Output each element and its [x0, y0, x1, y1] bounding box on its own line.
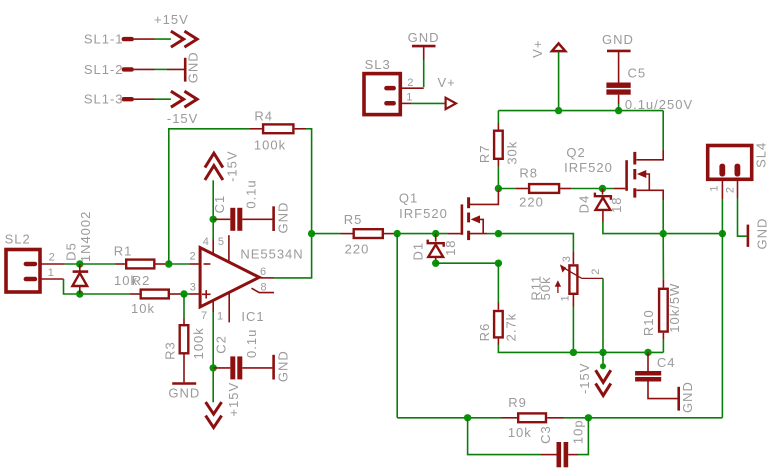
- potentiometer R11 wiper arrow: [560, 264, 603, 278]
- svg-text:10k/5W: 10k/5W: [667, 283, 682, 333]
- svg-text:R5: R5: [344, 212, 363, 227]
- zener diode D1: [428, 234, 444, 264]
- capacitor C1 lead right to ground: [242, 218, 272, 220]
- node op-amp output junction: [308, 230, 315, 237]
- wire SL2 pin1 lead: [40, 278, 64, 280]
- svg-text:3: 3: [561, 256, 573, 262]
- resistor R2 body: [141, 290, 169, 299]
- wire SL4 pin1 to output node: [721, 199, 723, 234]
- svg-text:100k: 100k: [254, 138, 286, 153]
- capacitor C2 lead left: [213, 367, 230, 369]
- wire C3 branch left: [468, 418, 541, 455]
- svg-text:10k: 10k: [508, 425, 532, 440]
- capacitor C4 lead bottom to ground: [648, 382, 678, 399]
- svg-text:IRF520: IRF520: [399, 206, 448, 221]
- svg-text:5: 5: [218, 236, 224, 248]
- svg-text:NE5534N: NE5534N: [240, 247, 303, 262]
- svg-text:R6: R6: [477, 323, 492, 342]
- op-amp pin 2 stub: [189, 263, 198, 265]
- node source column junction: [495, 260, 502, 267]
- svg-text:V+: V+: [530, 40, 545, 58]
- svg-text:SL1-3: SL1-3: [84, 92, 124, 107]
- resistor R9 lead right: [547, 417, 563, 419]
- svg-text:GND: GND: [276, 350, 291, 382]
- resistor R6 lead top: [497, 303, 499, 310]
- node D5 cathode junction: [76, 260, 83, 267]
- resistor R8 lead left: [516, 188, 528, 190]
- resistor R8 lead right: [560, 188, 571, 190]
- ground symbol GND bar (R3): [172, 382, 196, 385]
- wire net SL1-1 to +15V: [155, 38, 171, 40]
- capacitor C1 plates: [230, 208, 242, 231]
- svg-text:2.7k: 2.7k: [504, 313, 519, 342]
- svg-text:-15V: -15V: [225, 150, 240, 181]
- supply symbol -15V down (double chevron): [596, 370, 611, 395]
- wire C3 branch right: [578, 418, 588, 455]
- capacitor C4 lead top: [647, 352, 649, 371]
- node feedback takeoff junction: [394, 230, 401, 237]
- resistor R9 body: [518, 413, 546, 422]
- svg-text:R4: R4: [254, 109, 273, 124]
- connector SL4 box: [708, 146, 752, 180]
- svg-text:2: 2: [49, 251, 55, 263]
- svg-text:GND: GND: [186, 51, 201, 83]
- wire SL3 pin2 lead: [399, 87, 424, 89]
- connector SL2 pin 2 stub: [24, 262, 38, 267]
- wire output column down: [721, 234, 723, 418]
- op-amp plus symbol: [202, 290, 211, 298]
- resistor R2 lead right: [170, 293, 180, 295]
- svg-text:30k: 30k: [505, 141, 520, 165]
- svg-text:100k: 100k: [191, 327, 206, 359]
- potentiometer R11 body: [569, 265, 577, 293]
- svg-text:+15V: +15V: [226, 382, 241, 417]
- op-amp pin 7 stub: [212, 300, 214, 312]
- node R3 top junction: [180, 290, 187, 297]
- svg-text:GND: GND: [168, 386, 200, 401]
- capacitor C2 lead right to ground: [242, 367, 272, 369]
- svg-text:D5: D5: [64, 242, 79, 261]
- resistor R3 lead top: [183, 319, 185, 325]
- wire net pin1 jog down to R2 row: [64, 279, 131, 294]
- wire feedback left rail: [169, 129, 250, 264]
- ground symbol GND bar (SL4): [747, 225, 750, 247]
- resistor R7 lead top: [497, 123, 499, 130]
- op-amp pin 8 stub: [252, 288, 275, 292]
- diode D5 (1N4002): [72, 264, 88, 294]
- svg-text:R7: R7: [477, 144, 492, 163]
- capacitor C5 lead bottom: [618, 95, 620, 104]
- resistor R7 lead bottom: [497, 160, 499, 167]
- connector SL3 pin 1 stub: [384, 101, 396, 106]
- svg-text:SL2: SL2: [5, 232, 31, 247]
- wire Q2 source down to output rail: [662, 200, 664, 234]
- wire net pin2 to D5/R1: [65, 263, 116, 265]
- supply symbol +15V (double chevron right): [171, 31, 197, 47]
- wire R8 to Q2 gate: [571, 188, 614, 190]
- capacitor C5 plates: [606, 83, 630, 95]
- svg-text:C1: C1: [212, 195, 227, 214]
- wire D4 anode to output rail: [603, 222, 723, 234]
- svg-text:C5: C5: [627, 66, 646, 81]
- wire R11 wiper down to -15V rail: [602, 278, 604, 352]
- svg-text:IC1: IC1: [241, 309, 264, 324]
- wire SL3 pin2 to GND: [423, 60, 425, 87]
- wire R10 top column: [662, 234, 664, 280]
- wire V+ top rail: [498, 110, 663, 112]
- op-amp pin 5 stub: [228, 235, 230, 262]
- wire SL4 pin1 lead: [721, 179, 723, 199]
- svg-text:3: 3: [190, 281, 196, 293]
- wire V+ down to rail: [558, 52, 560, 111]
- wire op-amp output up: [274, 234, 312, 278]
- node D5 anode junction: [76, 290, 83, 297]
- op-amp pin 3 stub: [189, 293, 198, 295]
- svg-text:-15V: -15V: [577, 363, 592, 394]
- node C1 junction: [210, 216, 217, 223]
- resistor R10 lead top: [662, 280, 664, 288]
- connector SL1 pin SL1-2 stub: [122, 67, 134, 71]
- node R9/C3 right junction: [585, 414, 592, 421]
- capacitor C2 plates: [230, 356, 242, 379]
- node R10 top junction: [660, 230, 667, 237]
- connector SL3 box: [364, 74, 400, 115]
- node wiper junction: [599, 349, 606, 356]
- wire SL1-2 pin lead: [134, 68, 155, 70]
- wire R9 right to output column: [564, 417, 723, 419]
- wire R4 right down to output node: [306, 129, 312, 234]
- node R9/C3 left junction: [464, 414, 471, 421]
- svg-text:D1: D1: [411, 242, 426, 261]
- resistor R6 body: [494, 311, 503, 337]
- svg-text:C3: C3: [538, 425, 553, 444]
- svg-text:IRF520: IRF520: [564, 160, 613, 175]
- resistor R10 lead bottom: [662, 333, 664, 339]
- svg-text:10p: 10p: [571, 419, 586, 444]
- wire node to R8: [498, 188, 516, 190]
- svg-text:50k: 50k: [538, 276, 553, 300]
- op-amp pin 1 stub: [228, 292, 230, 322]
- wire output node to R5: [312, 233, 341, 235]
- capacitor C1 lead left: [213, 218, 230, 220]
- resistor R2 lead left: [130, 293, 140, 295]
- wire Q1 source to R11 top: [498, 234, 573, 252]
- supply symbol +15V down (double chevron): [206, 402, 222, 428]
- node V+ rail junction: [555, 107, 562, 114]
- potentiometer R11 trim arrow: [555, 280, 561, 293]
- svg-text:R2: R2: [132, 273, 151, 288]
- wire R2 to op-amp pin3: [180, 293, 189, 295]
- svg-text:Q2: Q2: [566, 145, 585, 160]
- wire rail corner down to R7: [497, 111, 499, 123]
- connector SL1 pin SL1-1 stub: [122, 37, 134, 41]
- node C4 junction: [644, 349, 651, 356]
- resistor R3 body: [180, 325, 189, 353]
- svg-text:Q1: Q1: [399, 191, 418, 206]
- svg-text:220: 220: [345, 242, 370, 257]
- wire Q1 source to node: [487, 233, 498, 235]
- wire C5 to rail: [618, 104, 620, 111]
- svg-text:2: 2: [190, 251, 196, 263]
- connector SL3 pin 2 stub: [384, 86, 396, 91]
- svg-text:1: 1: [709, 185, 721, 191]
- ground symbol GND bar (C4): [677, 387, 680, 411]
- ground symbol pin lead (SL3): [423, 47, 425, 60]
- svg-text:GND: GND: [754, 218, 769, 250]
- wire bottom feedback rail: [397, 417, 501, 419]
- wire SL3 pin1 lead: [399, 102, 412, 104]
- wire SL4 pin2 to ground: [738, 198, 747, 236]
- ground symbol GND bar (C5): [607, 50, 631, 53]
- svg-text:220: 220: [519, 195, 544, 210]
- svg-text:SL1-1: SL1-1: [84, 32, 124, 47]
- capacitor C3 plates: [557, 442, 569, 467]
- resistor R4 lead right: [295, 128, 306, 130]
- resistor R4 lead left: [250, 128, 262, 130]
- svg-text:1: 1: [560, 295, 572, 301]
- svg-text:2: 2: [590, 269, 602, 275]
- svg-text:-15V: -15V: [167, 111, 198, 126]
- resistor R9 lead left: [502, 417, 518, 419]
- svg-text:8: 8: [260, 282, 266, 294]
- op-amp IC1 triangle: [200, 248, 259, 307]
- resistor R6 lead bottom: [497, 339, 499, 345]
- svg-text:0.1u: 0.1u: [244, 179, 259, 208]
- svg-text:1: 1: [217, 311, 223, 323]
- transistor Q1 (IRF520 n-MOSFET): [462, 190, 499, 240]
- wire D1 anode to Q1 source column: [436, 262, 499, 264]
- svg-text:C2: C2: [214, 335, 229, 354]
- ground symbol GND bar (SL1-2): [184, 58, 187, 82]
- node feedback junction at R1: [165, 260, 172, 267]
- node R7/R8/Q1-drain junction: [495, 185, 502, 192]
- wire source column down to R6: [497, 263, 499, 302]
- potentiometer R11 lead bottom: [572, 294, 574, 307]
- transistor Q2 (IRF520 n-MOSFET): [627, 150, 664, 200]
- wire R5 to Q1 gate: [396, 233, 449, 235]
- wire R10 bottom to -15V rail: [662, 339, 664, 352]
- potentiometer R11 lead top: [572, 252, 574, 264]
- supply symbol -15V up (double chevron): [205, 153, 223, 180]
- ground symbol GND bar (C2): [272, 355, 275, 380]
- wire pin7 down to C2 node and +15V: [212, 312, 214, 402]
- svg-text:D4: D4: [576, 195, 591, 214]
- supply symbol -15V (double chevron right): [171, 91, 197, 107]
- wire -15V supply stub: [602, 352, 604, 366]
- svg-text:R10: R10: [641, 309, 656, 336]
- svg-text:C4: C4: [657, 355, 676, 370]
- resistor R1 lead left: [116, 263, 126, 265]
- wire SL4 pin2 lead: [737, 179, 739, 198]
- wire pin4 up to -15V / C1 node: [212, 180, 214, 239]
- svg-text:1: 1: [48, 267, 54, 279]
- ground symbol pin lead: [167, 68, 184, 70]
- wire -15V rail: [498, 345, 663, 353]
- svg-text:0.1u/250V: 0.1u/250V: [625, 97, 693, 112]
- svg-text:18: 18: [443, 239, 458, 255]
- svg-text:GND: GND: [276, 202, 291, 234]
- wire feedback column from gate node down: [396, 234, 398, 418]
- svg-text:SL4: SL4: [754, 142, 769, 168]
- node Q1 source junction: [495, 230, 502, 237]
- connector SL1 pin SL1-3 stub: [122, 97, 134, 101]
- wire Q2 drain up to rail: [662, 111, 664, 150]
- resistor R5 lead right: [384, 233, 396, 235]
- resistor R5 lead left: [341, 233, 353, 235]
- connector SL2 box: [6, 250, 40, 293]
- svg-text:10k: 10k: [131, 301, 155, 316]
- svg-text:GND: GND: [408, 30, 440, 45]
- resistor R1 body: [126, 260, 154, 269]
- node D1 cathode junction: [432, 230, 439, 237]
- capacitor C3 lead left: [541, 454, 557, 456]
- connector SL2 pin 1 stub: [24, 277, 38, 282]
- resistor R7 body: [494, 131, 503, 159]
- op-amp pin 6 stub: [261, 277, 275, 279]
- node -15V pin dot: [600, 363, 606, 369]
- zener diode D4: [595, 189, 611, 223]
- svg-text:SL1-2: SL1-2: [84, 62, 124, 77]
- svg-text:SL3: SL3: [365, 57, 391, 72]
- capacitor C5 lead top: [618, 51, 620, 83]
- svg-text:6: 6: [260, 266, 266, 278]
- resistor R3 lead bottom to ground: [183, 355, 185, 383]
- svg-text:0.1u: 0.1u: [244, 329, 259, 358]
- supply symbol V+ (open triangle right): [446, 98, 456, 109]
- wire Q1 gate stub: [448, 233, 461, 235]
- op-amp minus symbol: [204, 263, 211, 265]
- resistor R8 body: [529, 184, 559, 193]
- node output column junction: [719, 230, 726, 237]
- node D4 cathode junction: [599, 185, 606, 192]
- wire SL3 pin1 to V+: [411, 102, 445, 104]
- capacitor C4 plates: [635, 371, 661, 382]
- svg-text:1N4002: 1N4002: [78, 211, 93, 263]
- node D1 anode junction: [432, 260, 439, 267]
- connector SL4 pin 1 stub: [719, 164, 725, 177]
- node C5 rail junction: [615, 107, 622, 114]
- svg-text:GND: GND: [602, 32, 634, 47]
- ground symbol GND bar (C1): [272, 206, 275, 231]
- svg-text:+15V: +15V: [154, 12, 189, 27]
- svg-text:1: 1: [406, 91, 412, 103]
- wire R11 pin1 down to -15V rail: [572, 307, 574, 353]
- wire R7 to R8 node: [497, 167, 499, 189]
- wire net SL1-2 to GND: [155, 68, 168, 70]
- wire R3 top: [183, 294, 185, 319]
- op-amp pin 4 stub: [212, 240, 214, 255]
- node R11 pin1 junction: [570, 349, 577, 356]
- svg-text:R3: R3: [162, 341, 177, 360]
- connector SL4 pin 2 stub: [735, 164, 741, 177]
- resistor R10 body: [659, 289, 668, 332]
- svg-text:R8: R8: [519, 166, 538, 181]
- ground symbol GND bar (SL3): [412, 45, 436, 48]
- wire SL1-3 pin lead: [134, 98, 155, 100]
- supply symbol V+ (open triangle up, main rail): [552, 43, 565, 51]
- svg-text:R9: R9: [508, 395, 527, 410]
- resistor R5 body: [354, 229, 383, 238]
- wire net SL1-3 to -15V: [155, 98, 171, 100]
- svg-text:4: 4: [203, 236, 209, 248]
- svg-text:V+: V+: [437, 75, 455, 90]
- resistor R4 body: [263, 124, 293, 133]
- svg-text:2: 2: [725, 187, 737, 193]
- wire R1 to op-amp pin2: [166, 263, 190, 265]
- node C2 junction: [210, 364, 217, 371]
- wire SL2 pin2 lead: [40, 263, 65, 265]
- wire SL1-1 pin lead: [134, 38, 155, 40]
- svg-text:GND: GND: [680, 381, 695, 413]
- svg-text:R1: R1: [114, 244, 133, 259]
- capacitor C3 lead right: [568, 454, 578, 456]
- svg-text:7: 7: [201, 310, 207, 322]
- wire Q2 gate stub: [614, 188, 625, 190]
- resistor R1 lead right: [156, 263, 166, 265]
